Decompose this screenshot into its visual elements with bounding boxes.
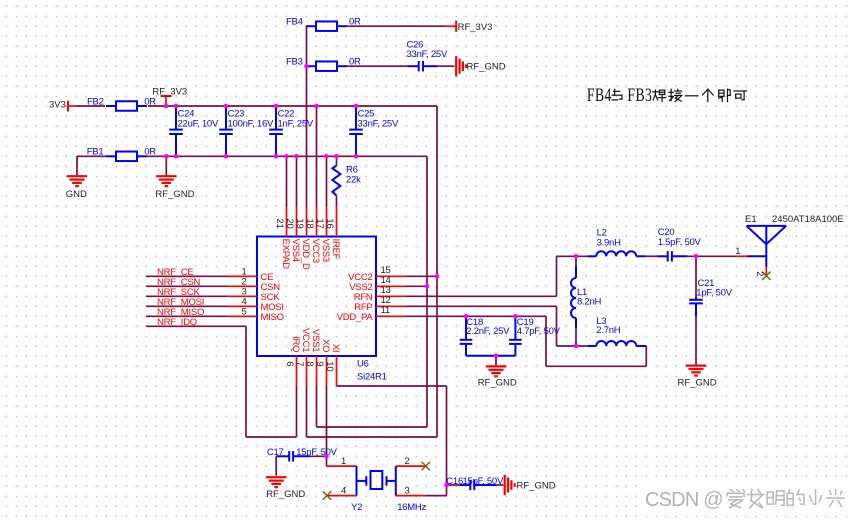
svg-text:2.2nF, 25V: 2.2nF, 25V [466,326,510,337]
svg-text:2: 2 [405,456,410,467]
svg-text:1pF, 50V: 1pF, 50V [696,288,732,299]
svg-text:8: 8 [304,361,315,366]
svg-text:RF_GND: RF_GND [678,377,717,388]
svg-text:11: 11 [381,305,390,316]
svg-text:XI: XI [330,344,341,352]
svg-text:IREF: IREF [330,239,341,260]
svg-text:0R: 0R [144,96,156,107]
svg-text:2450AT18A100E: 2450AT18A100E [772,214,844,225]
svg-text:6: 6 [284,361,295,366]
svg-text:VCC1: VCC1 [300,328,311,352]
svg-text:3: 3 [405,485,410,496]
svg-text:10: 10 [324,361,335,371]
svg-text:1: 1 [341,456,346,467]
svg-text:RF_GND: RF_GND [478,377,517,388]
svg-text:33nF, 25V: 33nF, 25V [358,119,399,130]
svg-text:100nF, 16V: 100nF, 16V [228,119,274,130]
svg-text:FB4: FB4 [587,85,612,105]
svg-text:2: 2 [754,271,765,276]
svg-text:19: 19 [294,218,305,228]
svg-text:16MHz: 16MHz [397,502,426,513]
svg-text:E1: E1 [745,214,757,225]
svg-text:22k: 22k [346,175,361,186]
svg-text:VSS1: VSS1 [310,329,321,352]
svg-text:VCC3: VCC3 [310,239,321,263]
svg-text:FB1: FB1 [87,147,104,158]
svg-text:1: 1 [735,246,740,257]
svg-text:Si24R1: Si24R1 [357,371,387,382]
svg-text:RF_GND: RF_GND [467,62,506,73]
svg-text:VDD_PA: VDD_PA [337,312,374,323]
svg-text:GND: GND [66,189,87,200]
svg-text:EXPAD: EXPAD [280,239,291,270]
svg-text:0R: 0R [144,147,156,158]
svg-text:VDD_D: VDD_D [300,239,311,270]
svg-text:MISO: MISO [261,312,284,323]
svg-text:CSDN @: CSDN @ [645,489,723,511]
svg-text:2.7nH: 2.7nH [596,325,620,336]
svg-text:FB3: FB3 [627,85,652,105]
svg-text:RF_3V3: RF_3V3 [458,22,493,33]
svg-text:RF_GND: RF_GND [155,189,194,200]
svg-text:7: 7 [294,361,305,366]
svg-text:8.2nH: 8.2nH [577,297,601,308]
svg-text:FB4: FB4 [286,17,303,28]
svg-text:IRQ: IRQ [290,336,301,352]
svg-text:FB3: FB3 [286,57,303,68]
svg-text:9: 9 [314,361,325,366]
svg-text:Y2: Y2 [351,502,362,513]
svg-text:33nF, 25V: 33nF, 25V [407,49,448,60]
svg-text:VSS4: VSS4 [290,239,301,262]
svg-text:0R: 0R [349,57,361,68]
svg-text:VSS3: VSS3 [320,239,331,262]
svg-text:4.7pF, 50V: 4.7pF, 50V [517,326,561,337]
svg-text:3V3: 3V3 [49,100,66,111]
svg-text:21: 21 [274,218,285,228]
svg-text:5: 5 [241,307,246,318]
svg-text:NRF_IDQ: NRF_IDQ [157,317,197,328]
svg-text:17: 17 [314,218,325,228]
svg-text:RF_3V3: RF_3V3 [152,87,187,98]
svg-text:RF_GND: RF_GND [266,489,305,500]
svg-text:3.9nH: 3.9nH [597,238,621,249]
svg-text:FB2: FB2 [87,96,104,107]
svg-text:RF_GND: RF_GND [517,481,556,492]
svg-text:18: 18 [304,218,315,228]
svg-text:16: 16 [324,218,335,228]
svg-text:U6: U6 [357,359,369,370]
svg-text:XO: XO [320,339,331,352]
svg-text:20: 20 [284,218,295,228]
svg-text:1.5pF, 50V: 1.5pF, 50V [658,237,702,248]
svg-text:0R: 0R [349,17,361,28]
svg-text:1nF, 25V: 1nF, 25V [278,119,314,130]
svg-text:4: 4 [341,485,346,496]
svg-text:22uF, 10V: 22uF, 10V [178,119,219,130]
